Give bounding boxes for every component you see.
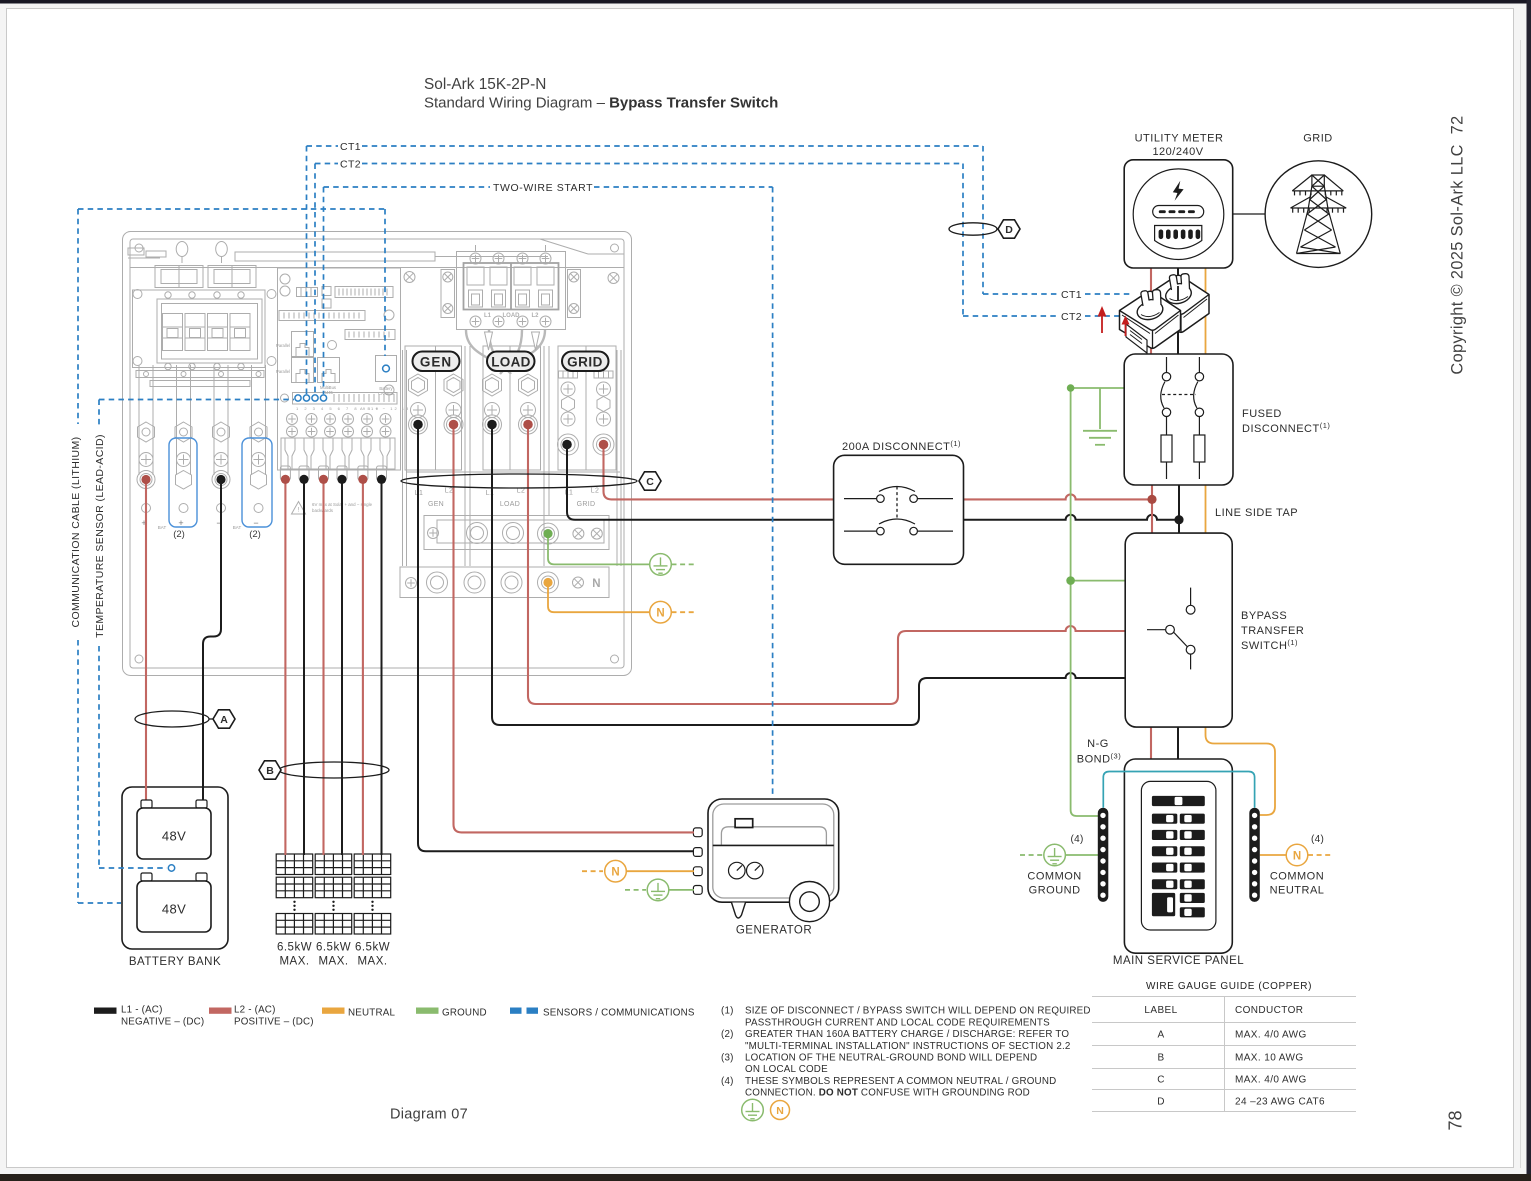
- fuse linkage: [1162, 394, 1196, 396]
- board screws: [280, 274, 394, 395]
- neutral bus bar right: [1249, 808, 1260, 902]
- svg-text:MAX.: MAX.: [318, 956, 348, 968]
- CT polarity arrow 1: [1098, 306, 1107, 333]
- svg-text:C: C: [1157, 1075, 1165, 1086]
- svg-text:48V: 48V: [162, 902, 186, 917]
- svg-text:Parallel: Parallel: [276, 369, 290, 374]
- svg-text:BAT: BAT: [158, 525, 167, 530]
- gen L2 wire: [454, 425, 695, 832]
- bypass to panel wires: [1150, 727, 1152, 760]
- wire through CT1 window: [1177, 286, 1179, 300]
- warning triangle: [292, 502, 306, 515]
- connector strip small: [297, 288, 318, 297]
- dashed display pill: [1153, 206, 1204, 218]
- temperature sensor probe: [168, 865, 174, 871]
- svg-text:GRID: GRID: [567, 355, 603, 370]
- legend sensors swatch: [510, 1008, 522, 1014]
- svg-text:ON LOCAL CODE: ON LOCAL CODE: [745, 1064, 828, 1075]
- line side tap black junction: [1174, 515, 1183, 524]
- dashed: common ground tail: [1020, 854, 1044, 856]
- gen L1 wire: [418, 425, 694, 851]
- svg-text:CT1: CT1: [340, 141, 361, 153]
- svg-text:LOCATION OF THE NEUTRAL-GROUND: LOCATION OF THE NEUTRAL-GROUND BOND WILL…: [745, 1053, 1037, 1064]
- grid L2 wire to line side tap: [604, 445, 1153, 499]
- svg-text:BATTERY BANK: BATTERY BANK: [129, 956, 221, 968]
- stud screws: [139, 453, 266, 467]
- GEN terminal hardware: [409, 374, 464, 434]
- svg-text:GEN: GEN: [420, 355, 452, 370]
- CT1 clamp: [1148, 274, 1209, 333]
- stud wire rings: [137, 471, 267, 513]
- svg-text:Parallel: Parallel: [276, 343, 290, 348]
- callout B hexagon: [259, 761, 281, 779]
- svg-text:GRID: GRID: [577, 501, 596, 508]
- svg-text:CT1: CT1: [1061, 289, 1082, 301]
- svg-text:LINE SIDE TAP: LINE SIDE TAP: [1215, 507, 1298, 519]
- svg-text:THESE SYMBOLS REPRESENT A COMM: THESE SYMBOLS REPRESENT A COMMON NEUTRAL…: [745, 1076, 1056, 1087]
- ground bus bar: [424, 516, 609, 550]
- svg-text:L2: L2: [445, 488, 453, 495]
- svg-text:78: 78: [1446, 1110, 1466, 1130]
- ground junctions: [1067, 384, 1075, 392]
- svg-text:Diagram 07: Diagram 07: [390, 1107, 468, 1123]
- generator neutral wire: [627, 870, 695, 872]
- svg-text:Sol-Ark 15K-2P-N: Sol-Ark 15K-2P-N: [424, 76, 546, 93]
- GRID terminal hardware: [558, 371, 615, 455]
- neutral bus bar: [400, 567, 609, 598]
- svg-text:MAX.: MAX.: [357, 956, 387, 968]
- battery terminal dots: [141, 475, 150, 484]
- svg-text:SIZE OF DISCONNECT / BYPASS SW: SIZE OF DISCONNECT / BYPASS SWITCH WILL …: [745, 1006, 1091, 1017]
- svg-text:(4): (4): [1311, 834, 1324, 845]
- tower upper arm: [1292, 190, 1343, 192]
- AC breaker side rails: [441, 270, 455, 318]
- inverter neutral stub: [548, 585, 650, 612]
- load terminal dots: [487, 420, 497, 430]
- battery breaker body: [133, 290, 266, 368]
- svg-text:A: A: [1157, 1030, 1164, 1041]
- generator ground wire: [669, 889, 694, 891]
- pv string wires: [285, 480, 381, 855]
- svg-text:MAX. 10 AWG: MAX. 10 AWG: [1235, 1053, 1304, 1064]
- PV clamp terminal strip: [281, 438, 395, 469]
- svg-text:BYPASS: BYPASS: [1241, 610, 1287, 622]
- svg-text:POSITIVE – (DC): POSITIVE – (DC): [234, 1017, 314, 1028]
- meter face circle: [1133, 169, 1224, 260]
- svg-text:CT2: CT2: [340, 158, 361, 170]
- svg-text:"MULTI-TERMINAL INSTALLATION": "MULTI-TERMINAL INSTALLATION" INSTRUCTIO…: [745, 1041, 1071, 1052]
- legend neutral swatch: [322, 1008, 345, 1014]
- svg-text:TEMPERATURE SENSOR (LEAD-ACID): TEMPERATURE SENSOR (LEAD-ACID): [94, 434, 106, 638]
- connector strip mid: [279, 311, 365, 321]
- main breaker: [1152, 796, 1205, 806]
- svg-text:COMMON: COMMON: [1270, 871, 1324, 883]
- lightning bolt: [1173, 181, 1184, 201]
- svg-text:6.5kW: 6.5kW: [316, 942, 351, 954]
- branch breaker rows: [1152, 814, 1205, 918]
- neutral wire bypass to bus: [1206, 727, 1276, 815]
- callout A hexagon: [213, 710, 235, 728]
- panel enclosure: [1124, 759, 1232, 953]
- grid L1 wire to line side tap: [567, 445, 1179, 520]
- parallel RJ45 port 2: [292, 358, 314, 383]
- svg-text:(2): (2): [173, 529, 185, 540]
- battery CANBus port: [376, 356, 397, 382]
- top-left latch cluster: [128, 248, 144, 255]
- svg-text:L1 - (AC): L1 - (AC): [121, 1005, 163, 1016]
- svg-text:LOAD: LOAD: [503, 313, 521, 319]
- ground branch to fused disconnect: [1071, 387, 1124, 389]
- svg-text:WIRE GAUGE GUIDE (COPPER): WIRE GAUGE GUIDE (COPPER): [1146, 981, 1312, 992]
- svg-text:LOAD: LOAD: [500, 501, 520, 508]
- tower legs: [1297, 186, 1312, 253]
- common ground symbol: [1044, 844, 1066, 866]
- breaker window: [1141, 781, 1216, 930]
- bypass box: [1125, 533, 1232, 727]
- svg-text:NEGATIVE – (DC): NEGATIVE – (DC): [121, 1017, 204, 1028]
- mount slot ovals: [176, 242, 188, 257]
- svg-text:Copyright © 2025 Sol-Ark LLC: Copyright © 2025 Sol-Ark LLC 72: [1449, 115, 1467, 374]
- battery breaker screw rows: [165, 292, 244, 370]
- svg-text:BAT: BAT: [233, 525, 242, 530]
- connector strip lower: [345, 330, 395, 340]
- svg-text:MAIN SERVICE PANEL: MAIN SERVICE PANEL: [1113, 955, 1244, 967]
- svg-text:COMMUNICATION CABLE (LITHIUM): COMMUNICATION CABLE (LITHIUM): [70, 436, 82, 627]
- GEN terminal panel: [405, 346, 462, 470]
- svg-text:CANBus: CANBus: [378, 391, 394, 396]
- svg-text:(1): (1): [721, 1006, 734, 1017]
- callout D hexagon: [998, 220, 1020, 238]
- GEN pill: [413, 352, 460, 372]
- battery cell 2: [141, 873, 152, 881]
- breaker poles: [163, 314, 251, 351]
- svg-text:GROUND: GROUND: [1029, 885, 1081, 897]
- inverter chassis ground symbol: [650, 554, 672, 576]
- common neutral link: [1260, 854, 1286, 856]
- callout C hexagon: [639, 472, 661, 490]
- svg-text:TRANSFER: TRANSFER: [1241, 625, 1304, 637]
- connector strip wide top: [335, 287, 393, 298]
- meter lower window: [1155, 226, 1202, 249]
- svg-text:SENSORS / COMMUNICATIONS: SENSORS / COMMUNICATIONS: [543, 1008, 695, 1019]
- battery stud columns: [139, 365, 266, 475]
- inverter inner margin: [130, 239, 624, 668]
- tower head: [1312, 175, 1324, 186]
- top fold diagonals: [540, 239, 588, 254]
- svg-text:L2: L2: [531, 313, 539, 319]
- disconnect linkage: [896, 487, 898, 518]
- ground branch to bypass: [1071, 580, 1125, 582]
- svg-text:DISCONNECT(1): DISCONNECT(1): [1242, 421, 1330, 435]
- bypass switch poles: [1147, 588, 1195, 670]
- svg-text:A: A: [220, 714, 228, 726]
- ground bus dot: [543, 529, 552, 538]
- svg-text:GRID: GRID: [1303, 133, 1333, 145]
- parallel RJ45 port 1: [292, 332, 314, 357]
- inner corner screws: [135, 244, 619, 663]
- legend L1 swatch: [94, 1008, 117, 1014]
- svg-text:B: B: [1157, 1053, 1164, 1064]
- svg-text:N: N: [776, 1105, 784, 1117]
- sensor terminals (blue circles row): [295, 395, 327, 401]
- battery negative wire: [203, 480, 221, 806]
- generator ground symbol: [647, 879, 669, 901]
- load L2 wire: [528, 425, 1125, 704]
- svg-text:MAX.: MAX.: [279, 956, 309, 968]
- battery cell 1: [141, 800, 152, 808]
- 200A disconnect box: [834, 455, 964, 564]
- svg-text:C: C: [646, 476, 654, 488]
- svg-text:PASSTHROUGH CURRENT AND LOCAL: PASSTHROUGH CURRENT AND LOCAL CODE REQUI…: [745, 1017, 1050, 1028]
- CT polarity arrow 2: [1122, 316, 1130, 337]
- dashed: generator neutral tail: [582, 870, 603, 872]
- generator gauges: [729, 862, 746, 879]
- tower lattice: [1312, 186, 1326, 199]
- svg-text:L2: L2: [591, 488, 599, 495]
- fused disconnect box: [1124, 354, 1233, 485]
- meter box: [1124, 160, 1233, 268]
- svg-text:B: B: [266, 765, 274, 777]
- dashed: CT2 run: [315, 164, 1120, 395]
- generator wheel: [789, 882, 829, 922]
- dashed: inverter neutral tail: [672, 611, 695, 613]
- svg-text:NEUTRAL: NEUTRAL: [1270, 885, 1325, 897]
- svg-text:GEN: GEN: [428, 501, 444, 508]
- fuse pole 2: [1194, 357, 1205, 479]
- AC breaker screws: [470, 253, 551, 327]
- svg-text:N: N: [1293, 850, 1301, 862]
- svg-text:−: −: [253, 518, 258, 528]
- dashed: CT1 run: [307, 146, 1134, 394]
- battery breaker link plates: [155, 266, 203, 288]
- svg-text:N-G: N-G: [1087, 738, 1109, 750]
- svg-text:CONDUCTOR: CONDUCTOR: [1235, 1005, 1303, 1016]
- neutral bus dot: [543, 578, 552, 587]
- svg-text:N: N: [656, 608, 664, 620]
- CT2 clamp: [1120, 290, 1181, 353]
- footnote ground symbol: [742, 1099, 764, 1121]
- callout A ellipse: [135, 711, 209, 727]
- svg-text:6.5kW: 6.5kW: [277, 942, 312, 954]
- legend L2 swatch: [209, 1008, 232, 1014]
- svg-text:GROUND: GROUND: [442, 1008, 487, 1019]
- inter-panel rails: [403, 346, 622, 566]
- svg-text:6.5kW: 6.5kW: [355, 942, 390, 954]
- PV clamp feet: [280, 466, 386, 480]
- svg-text:LABEL: LABEL: [1144, 1005, 1177, 1016]
- svg-text:LOAD: LOAD: [491, 355, 530, 370]
- battery terminal blue covers: [169, 438, 197, 527]
- svg-text:48V: 48V: [162, 829, 186, 844]
- earth ground symbol: [1083, 388, 1117, 445]
- top chassis rail: [235, 252, 435, 261]
- AC breaker body: [457, 252, 566, 330]
- svg-text:+: +: [178, 518, 183, 528]
- disconnect pole 2: [844, 519, 953, 535]
- load L1 wire: [492, 425, 1125, 725]
- svg-text:L2 - (AC): L2 - (AC): [234, 1005, 276, 1016]
- grid terminal dots: [562, 440, 572, 450]
- dashed: communication cable run: [78, 209, 385, 903]
- svg-text:N: N: [592, 578, 600, 590]
- inverter neutral symbol: [650, 601, 672, 623]
- dashed: generator ground tail: [625, 889, 646, 891]
- callout C ellipse: [401, 474, 637, 488]
- dashed: inverter ground tail: [672, 563, 695, 565]
- inverter top band line: [130, 267, 624, 269]
- GRID pill: [562, 352, 609, 372]
- ground trunk: [1071, 388, 1098, 816]
- sensor terminal strip: [281, 394, 289, 402]
- pv ellipsis dots: [293, 901, 373, 911]
- meter to grid link: [1233, 213, 1266, 215]
- inverter ground stub: [548, 536, 650, 564]
- stud hex nuts: [138, 422, 268, 442]
- N-G bond jumper: [1103, 772, 1254, 808]
- svg-text:Standard Wiring Diagram – Bypa: Standard Wiring Diagram – Bypass Transfe…: [424, 95, 778, 112]
- ground bus bar left: [1098, 808, 1109, 902]
- common ground link: [1066, 854, 1098, 856]
- dashed: two-wire start run: [324, 187, 773, 798]
- svg-text:(4): (4): [721, 1076, 734, 1087]
- callout B ellipse: [279, 762, 389, 778]
- common neutral symbol: [1286, 844, 1308, 866]
- svg-text:D: D: [1157, 1097, 1165, 1108]
- svg-text:L1: L1: [484, 313, 492, 319]
- svg-text:N: N: [611, 867, 619, 879]
- generator terminals: [693, 828, 702, 837]
- svg-text:D: D: [1005, 224, 1013, 236]
- fused disconnect to bypass wires: [1151, 485, 1153, 533]
- footnote neutral symbol: [771, 1101, 790, 1120]
- pv string 1 panels: [276, 854, 391, 934]
- legend ground swatch: [416, 1008, 439, 1014]
- meter drop wires: [1150, 268, 1152, 355]
- disconnect pole 1: [844, 487, 953, 503]
- svg-text:(2): (2): [249, 529, 261, 540]
- grid circle: [1265, 161, 1372, 268]
- inverter outer case: [123, 232, 632, 676]
- generator body: [708, 799, 839, 902]
- svg-text:MAX. 4/0 AWG: MAX. 4/0 AWG: [1235, 1030, 1307, 1041]
- svg-text:FUSED: FUSED: [1242, 408, 1282, 420]
- svg-text:TWO-WIRE START: TWO-WIRE START: [493, 182, 593, 194]
- battery breaker corner screws: [133, 290, 276, 366]
- svg-text:UTILITY METER: UTILITY METER: [1135, 133, 1224, 145]
- generator cover: [721, 827, 826, 845]
- dashed: common neutral tail: [1308, 854, 1331, 856]
- AC breaker poles: [467, 245, 554, 307]
- breaker-to-load hoses: [466, 330, 545, 374]
- fuse pole 1: [1161, 357, 1172, 479]
- svg-text:COMMON: COMMON: [1027, 871, 1081, 883]
- battery positive wire: [145, 480, 147, 806]
- dashed: temperature sensor run: [99, 400, 294, 869]
- GRID terminal panel: [558, 346, 616, 470]
- tower lower arm: [1291, 207, 1347, 209]
- LOAD terminal panel: [483, 346, 541, 470]
- pv terminal dots: [281, 475, 290, 484]
- svg-text:NEUTRAL: NEUTRAL: [348, 1008, 395, 1019]
- generator legs: [732, 903, 746, 919]
- svg-text:CT2: CT2: [1061, 311, 1082, 323]
- callout D ellipse: [949, 223, 997, 235]
- LOAD terminal hardware: [483, 374, 538, 434]
- svg-text:(4): (4): [1071, 834, 1084, 845]
- svg-text:(3): (3): [721, 1053, 734, 1064]
- control board: [278, 268, 401, 470]
- bus link bars under breaker: [136, 371, 264, 378]
- svg-text:CONNECTION. DO NOT CONFUSE WIT: CONNECTION. DO NOT CONFUSE WITH GROUNDIN…: [745, 1088, 1030, 1099]
- gen terminal dots: [413, 420, 423, 430]
- svg-text:200A DISCONNECT(1): 200A DISCONNECT(1): [842, 439, 961, 453]
- svg-text:GREATER THAN 160A BATTERY CHAR: GREATER THAN 160A BATTERY CHARGE / DISCH…: [745, 1029, 1069, 1040]
- generator neutral symbol: [605, 860, 627, 882]
- svg-text:120/240V: 120/240V: [1152, 146, 1203, 158]
- battery bank enclosure: [122, 787, 228, 949]
- svg-text:(2): (2): [721, 1029, 734, 1040]
- svg-text:24 –23 AWG CAT6: 24 –23 AWG CAT6: [1235, 1097, 1325, 1108]
- svg-text:GENERATOR: GENERATOR: [736, 925, 812, 937]
- LOAD pill: [487, 352, 535, 372]
- line side tap red junction: [1147, 495, 1156, 504]
- svg-text:MAX. 4/0 AWG: MAX. 4/0 AWG: [1235, 1075, 1307, 1086]
- multibus RJ45 port: [318, 358, 340, 383]
- PV screw rows: [287, 414, 392, 438]
